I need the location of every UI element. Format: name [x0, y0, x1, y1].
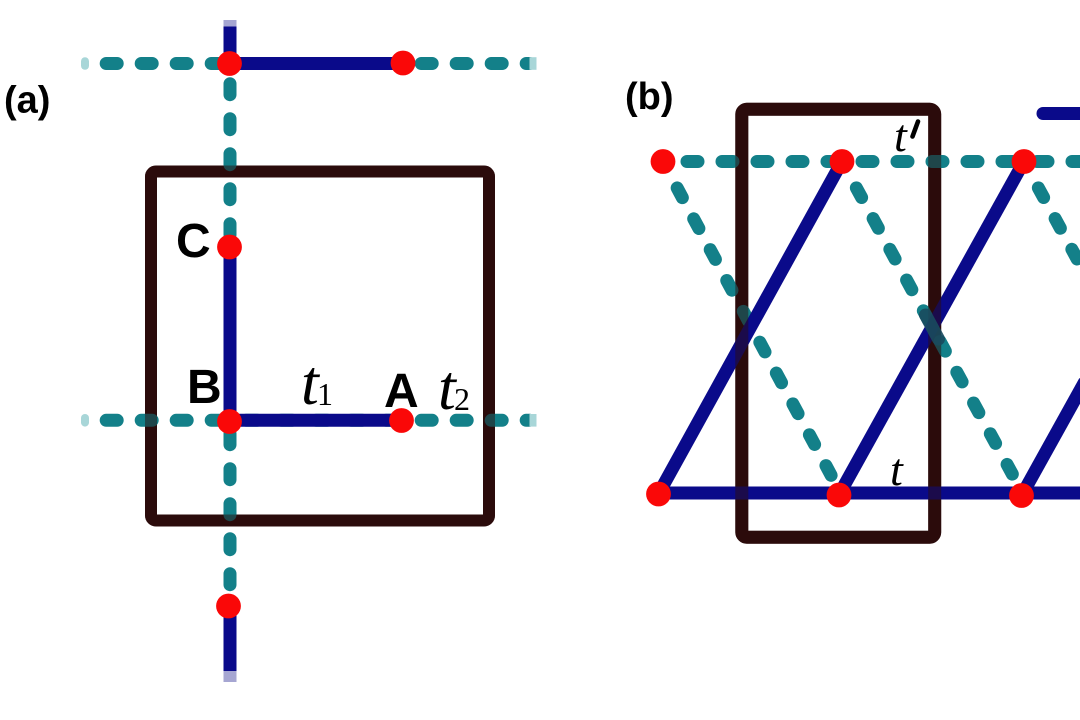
- wire: solid diagonal bond 2: [840, 162, 1024, 494]
- wire: solid bond entering from top edge: [224, 24, 237, 63]
- node: top row site 2: [830, 149, 855, 174]
- svg-text:(b): (b): [625, 76, 674, 118]
- unit-cell box (panel a): [151, 172, 489, 521]
- wire: solid bond leaving bottom C site: [224, 606, 237, 672]
- prime tick of t': [913, 122, 919, 137]
- wire: dashed t2 line, top row (teal): [106, 57, 529, 70]
- wire: solid bond C-B vertical: [224, 247, 237, 421]
- wire: solid bond fragment, top-right: [1043, 107, 1080, 120]
- node A site: [389, 408, 414, 433]
- unit-cell box overlay for crossing blend (panel a): [151, 172, 489, 521]
- node: bottom C site: [216, 594, 241, 619]
- wire: solid diagonal bond 1: [659, 162, 842, 494]
- svg-text:2: 2: [454, 381, 470, 417]
- svg-text:A: A: [384, 365, 419, 418]
- unit-cell box (panel b): [742, 109, 935, 537]
- node C site: [217, 235, 242, 260]
- unit-cell box overlay for crossing blend (panel b): [742, 109, 935, 537]
- periodic-continuation cap, top: [224, 20, 237, 27]
- node: top corner site: [217, 51, 242, 76]
- wire: dashed t2 line, middle row (teal): [106, 414, 529, 427]
- node: bottom row site 2: [827, 483, 852, 508]
- periodic-continuation cap, bottom: [224, 671, 237, 682]
- faded dash end, top-left: [81, 57, 89, 70]
- wire: solid diagonal bond 3 (clipped): [1023, 381, 1080, 493]
- wire: dashed diagonal 2 (teal): [842, 162, 1021, 491]
- wire: dashed t' line, top row (teal): [687, 155, 1080, 168]
- faded dash end, mid-left: [81, 414, 89, 427]
- svg-text:(a): (a): [4, 80, 50, 122]
- node B site: [217, 409, 242, 434]
- node: bottom row site 1: [646, 482, 671, 507]
- node: top A site: [391, 51, 416, 76]
- wire: dashed diagonal 3 (teal, clipped): [1024, 162, 1080, 274]
- crossing blend: dashed diagonal 2 over solid diagonal 2: [926, 315, 939, 339]
- wire: dashed diagonal 1 (teal): [663, 162, 839, 491]
- faded dash end, mid-right: [530, 414, 537, 427]
- svg-text:C: C: [176, 215, 211, 268]
- svg-text:t: t: [894, 110, 908, 161]
- svg-text:t: t: [890, 444, 904, 495]
- wire: solid t line, bottom row: [659, 487, 1080, 500]
- svg-text:1: 1: [317, 376, 333, 412]
- wire: dashed t2 line, vertical column (teal): [224, 84, 237, 592]
- node: bottom row site 3: [1009, 483, 1034, 508]
- node: top row site 1: [651, 149, 676, 174]
- wire: solid bond t1, top row B-A: [230, 57, 403, 70]
- svg-text:B: B: [187, 361, 222, 414]
- node: top row site 3: [1012, 149, 1037, 174]
- wire: solid bond t1, middle row B-A: [230, 414, 402, 427]
- faded dash end, top-right: [530, 57, 537, 70]
